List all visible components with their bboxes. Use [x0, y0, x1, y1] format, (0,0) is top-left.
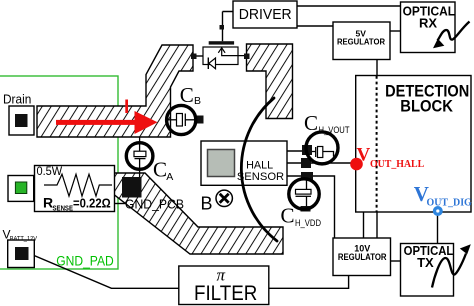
- svg-text:C: C: [304, 111, 318, 135]
- svg-text:V: V: [357, 145, 371, 166]
- svg-text:BATT_12V: BATT_12V: [10, 235, 38, 242]
- svg-text:OUT_HALL: OUT_HALL: [370, 159, 424, 170]
- svg-text:GND_PCB: GND_PCB: [125, 197, 184, 212]
- svg-text:OUT_DIG: OUT_DIG: [427, 196, 473, 208]
- svg-text:C: C: [153, 158, 167, 182]
- svg-text:0.5W: 0.5W: [37, 166, 63, 178]
- svg-text:BLOCK: BLOCK: [400, 96, 453, 115]
- svg-text:Drain: Drain: [3, 92, 31, 107]
- svg-text:DRIVER: DRIVER: [239, 6, 292, 23]
- svg-text:C: C: [180, 83, 194, 107]
- svg-text:GND_PAD: GND_PAD: [56, 253, 114, 268]
- svg-text:B: B: [194, 95, 201, 107]
- svg-text:HALL: HALL: [246, 159, 273, 171]
- svg-text:B: B: [201, 193, 213, 213]
- svg-text:SENSOR: SENSOR: [237, 171, 284, 183]
- svg-text:TX: TX: [417, 255, 434, 270]
- svg-text:H_VOUT: H_VOUT: [319, 125, 350, 135]
- svg-text:H_VDD: H_VDD: [295, 218, 321, 228]
- svg-text:RX: RX: [419, 15, 437, 30]
- svg-text:SENSE: SENSE: [53, 205, 74, 212]
- svg-text:A: A: [166, 171, 173, 183]
- svg-text:FILTER: FILTER: [194, 282, 257, 305]
- svg-text:C: C: [281, 204, 295, 228]
- svg-text:REGULATOR: REGULATOR: [338, 252, 387, 262]
- svg-text:=0.22Ω: =0.22Ω: [73, 196, 111, 211]
- svg-text:REGULATOR: REGULATOR: [337, 36, 385, 46]
